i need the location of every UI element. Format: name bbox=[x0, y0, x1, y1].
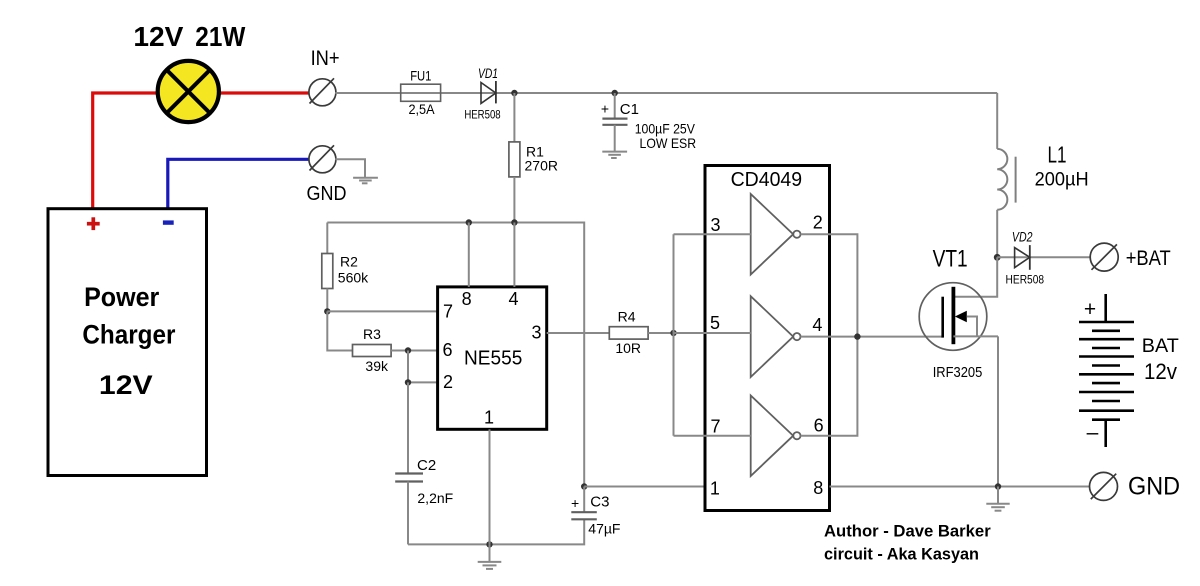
svg-text:HER508: HER508 bbox=[1006, 273, 1045, 287]
minus terminal mark bbox=[163, 220, 174, 224]
wire red from lamp to power charger plus bbox=[93, 93, 156, 208]
wire input to inverter B bbox=[674, 332, 751, 334]
diode VD1 HER508 bbox=[464, 65, 501, 122]
wire input bus vertical bbox=[673, 234, 675, 436]
svg-text:12V: 12V bbox=[99, 370, 153, 400]
svg-text:200µH: 200µH bbox=[1035, 169, 1089, 191]
svg-text:IRF3205: IRF3205 bbox=[933, 365, 983, 381]
node R2 bottom junction bbox=[324, 308, 330, 314]
svg-text:4: 4 bbox=[812, 315, 822, 335]
svg-text:8: 8 bbox=[462, 289, 472, 309]
wire junction down to pin2 bbox=[408, 351, 438, 383]
wire bottom left rail bbox=[408, 519, 584, 545]
resistor R4 10R bbox=[609, 309, 673, 357]
node VD2 junction bbox=[994, 254, 1001, 261]
svg-text:21W: 21W bbox=[195, 21, 245, 52]
wire top rail IN+ to L1 corner bbox=[335, 92, 997, 94]
IC NE555 bbox=[438, 287, 547, 429]
svg-text:10R: 10R bbox=[615, 340, 641, 356]
svg-text:7: 7 bbox=[710, 417, 720, 437]
wire node to VD2 bbox=[997, 256, 1090, 258]
node pin8 top bbox=[466, 219, 472, 225]
node R3 out junction bbox=[405, 347, 411, 353]
svg-text:VD1: VD1 bbox=[478, 65, 498, 81]
svg-text:CD4049: CD4049 bbox=[731, 168, 803, 191]
wire left net: R2 top line y=222 bbox=[327, 223, 584, 487]
node R4 output junction bbox=[670, 330, 676, 336]
wire R2 junction to NE555 pin7 bbox=[327, 310, 437, 312]
svg-text:3: 3 bbox=[710, 215, 720, 235]
wire pin1 down bbox=[489, 429, 491, 544]
text author credit bbox=[824, 521, 991, 563]
svg-text:4: 4 bbox=[508, 289, 518, 309]
resistor R2 560k bbox=[322, 223, 369, 312]
IC CD4049 bbox=[705, 166, 830, 511]
svg-text:NE555: NE555 bbox=[464, 348, 522, 370]
resistor R3 39k bbox=[353, 326, 438, 374]
svg-text:L1: L1 bbox=[1048, 141, 1067, 167]
wire L1 to VD2 node bbox=[996, 210, 998, 257]
svg-text:2,5A: 2,5A bbox=[408, 102, 435, 117]
power charger box bbox=[48, 209, 207, 476]
svg-text:C2: C2 bbox=[417, 457, 436, 474]
wire blue from GND terminal to power charger minus bbox=[168, 159, 310, 208]
svg-text:GND: GND bbox=[1128, 473, 1180, 501]
svg-text:8: 8 bbox=[813, 478, 823, 498]
svg-text:+: + bbox=[571, 495, 579, 511]
svg-text:5: 5 bbox=[710, 313, 720, 333]
svg-text:2: 2 bbox=[443, 372, 453, 392]
wire top rail corner down to L1 bbox=[996, 93, 998, 149]
inverter C (pins 7-6) bbox=[751, 396, 801, 477]
svg-text:3: 3 bbox=[531, 322, 541, 342]
svg-text:R4: R4 bbox=[618, 309, 636, 325]
svg-text:6: 6 bbox=[442, 340, 452, 360]
svg-text:1: 1 bbox=[710, 478, 720, 498]
node ground junction bottom bbox=[486, 541, 492, 547]
diode VD2 HER508 bbox=[1006, 229, 1045, 287]
svg-text:12V: 12V bbox=[133, 21, 183, 52]
svg-text:2,2nF: 2,2nF bbox=[417, 490, 453, 506]
svg-text:39k: 39k bbox=[365, 358, 389, 374]
svg-text:Author - Dave Barker: Author - Dave Barker bbox=[824, 521, 991, 540]
wire source down to bottom rail bbox=[997, 336, 999, 486]
wire red lamp to IN+ terminal bbox=[220, 91, 310, 94]
capacitor C3 47uF bbox=[571, 483, 620, 536]
wire output inverter C bbox=[801, 337, 858, 436]
ground (source) bbox=[986, 487, 1009, 511]
svg-text:+: + bbox=[1084, 298, 1096, 321]
wire output inverter A bbox=[801, 234, 858, 336]
terminal IN+ bbox=[309, 47, 340, 106]
svg-text:560k: 560k bbox=[338, 270, 369, 286]
svg-text:GND: GND bbox=[307, 183, 347, 205]
resistor R1 270R bbox=[509, 93, 558, 223]
svg-text:47µF: 47µF bbox=[588, 521, 620, 537]
wire down to C2 bbox=[407, 382, 409, 473]
lamp 12V 21W bbox=[133, 21, 245, 122]
wire C3 junction to CD4049 pin1 bbox=[584, 486, 705, 488]
terminal GND (output) bbox=[1090, 472, 1181, 500]
node junction R1 top bbox=[511, 90, 517, 96]
capacitor C1 100uF 25V LOW ESR bbox=[601, 93, 696, 152]
ground (C1) bbox=[602, 152, 627, 158]
svg-text:Power: Power bbox=[84, 282, 160, 312]
wire pin3 to R4 bbox=[547, 332, 610, 334]
wire input to inverter A bbox=[674, 233, 751, 235]
svg-text:IN+: IN+ bbox=[311, 47, 340, 70]
wire pin4 to top line (R1 line) bbox=[513, 223, 515, 287]
inverter A (pins 3-2) bbox=[751, 194, 801, 275]
battery BAT 12v bbox=[1079, 294, 1179, 447]
node pin2 branch bbox=[405, 379, 411, 385]
svg-text:LOW ESR: LOW ESR bbox=[640, 136, 697, 151]
node junction C1 top bbox=[612, 90, 618, 96]
fuse FU1 2,5A bbox=[401, 68, 441, 117]
svg-text:HER508: HER508 bbox=[464, 108, 501, 122]
svg-text:VT1: VT1 bbox=[933, 246, 968, 273]
svg-text:270R: 270R bbox=[525, 158, 558, 174]
inverter B (pins 5-4) bbox=[751, 296, 801, 377]
svg-text:6: 6 bbox=[814, 416, 824, 436]
wire pin8 to top line bbox=[468, 223, 470, 287]
terminal GND (input) bbox=[307, 145, 347, 205]
ground (NE555 pin1) bbox=[478, 544, 502, 569]
svg-text:R3: R3 bbox=[363, 326, 381, 342]
svg-text:1: 1 bbox=[484, 407, 494, 427]
svg-text:+BAT: +BAT bbox=[1126, 247, 1171, 270]
svg-text:Charger: Charger bbox=[82, 320, 175, 350]
svg-text:FU1: FU1 bbox=[410, 68, 431, 84]
wire bottom rail CD4049 pin8 to GND terminal bbox=[830, 486, 1091, 488]
plus terminal mark bbox=[87, 222, 100, 226]
svg-text:–: – bbox=[1087, 421, 1099, 444]
wire GND terminal to ground bbox=[335, 159, 365, 177]
wire R2 junction down to R3 bbox=[327, 311, 352, 350]
wire drain path bbox=[953, 257, 997, 296]
svg-text:7: 7 bbox=[443, 301, 453, 321]
wire input to inverter C bbox=[674, 435, 751, 437]
node pin4 / R1 bottom bbox=[511, 219, 517, 225]
wire output inverter B to gate bbox=[801, 336, 943, 338]
transistor VT1 IRF3205 bbox=[919, 246, 998, 382]
terminal +BAT bbox=[1090, 243, 1171, 271]
svg-text:BAT: BAT bbox=[1142, 335, 1179, 357]
svg-text:2: 2 bbox=[813, 213, 823, 233]
node output bus junction bbox=[854, 333, 860, 339]
ground (input GND) bbox=[353, 178, 378, 184]
svg-text:R2: R2 bbox=[340, 253, 358, 269]
svg-text:C3: C3 bbox=[590, 494, 609, 511]
svg-text:VD2: VD2 bbox=[1012, 229, 1033, 245]
svg-text:12v: 12v bbox=[1144, 359, 1177, 384]
svg-text:C1: C1 bbox=[620, 101, 639, 118]
svg-text:circuit - Aka Kasyan: circuit - Aka Kasyan bbox=[824, 545, 979, 564]
capacitor C2 2,2nF bbox=[395, 457, 453, 545]
svg-text:100µF 25V: 100µF 25V bbox=[635, 122, 696, 137]
node source ground junction bbox=[995, 483, 1001, 489]
inductor L1 200uH bbox=[997, 141, 1088, 210]
svg-text:+: + bbox=[601, 101, 609, 117]
